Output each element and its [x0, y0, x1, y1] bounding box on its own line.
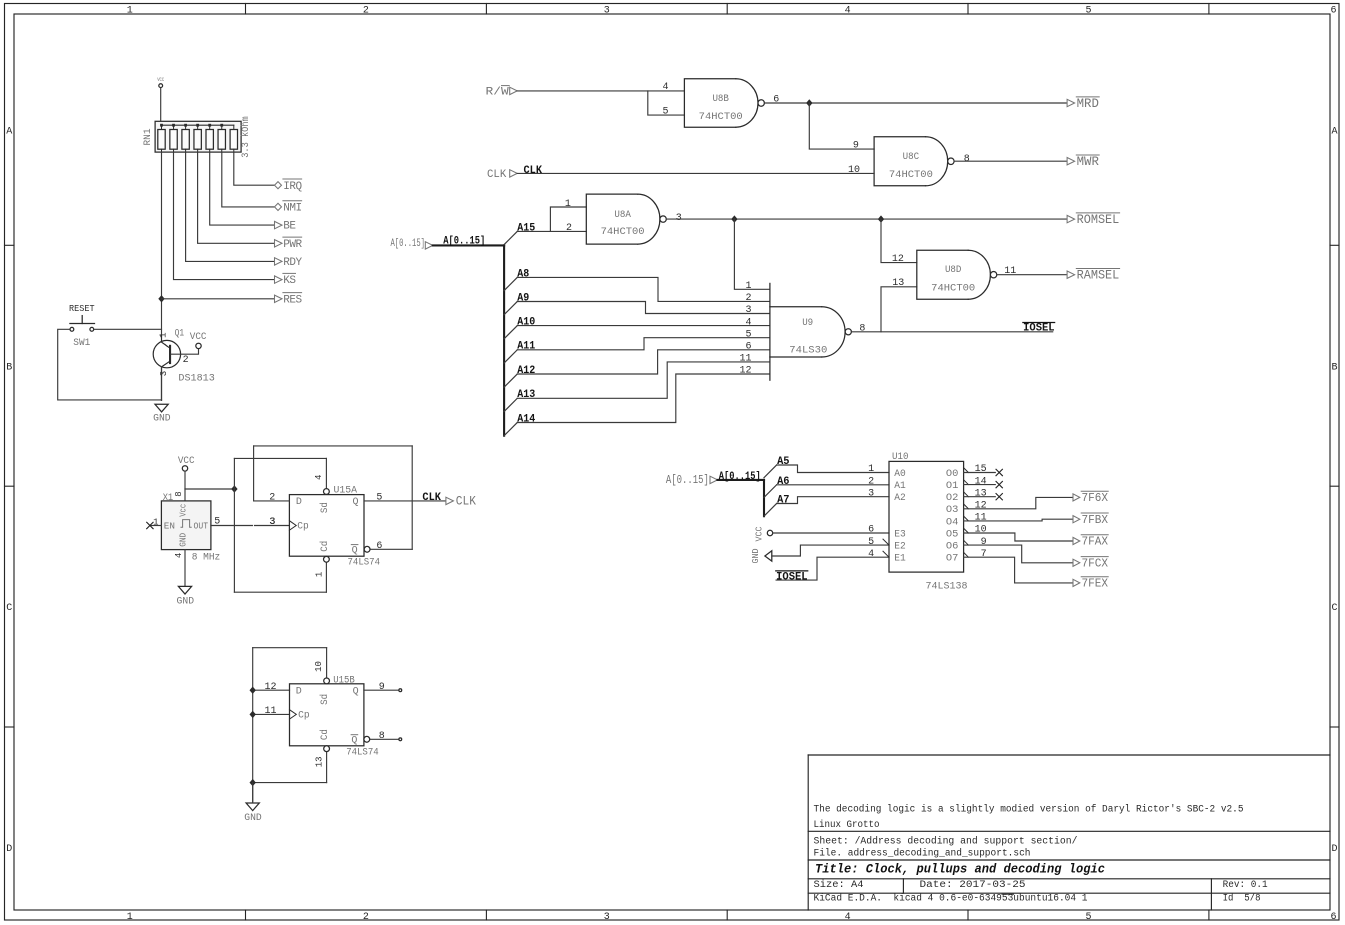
svg-text:E2: E2 [894, 542, 906, 553]
svg-text:A9: A9 [517, 292, 529, 304]
svg-text:15: 15 [975, 464, 987, 475]
svg-text:2: 2 [363, 912, 369, 923]
svg-text:14: 14 [975, 476, 987, 487]
svg-text:E3: E3 [894, 529, 906, 540]
svg-text:6: 6 [1330, 5, 1336, 16]
svg-text:3: 3 [676, 213, 682, 224]
svg-text:2: 2 [269, 493, 275, 504]
svg-text:5: 5 [1085, 912, 1091, 923]
svg-text:13: 13 [975, 488, 987, 499]
svg-text:6: 6 [868, 525, 874, 536]
svg-text:74HCT00: 74HCT00 [601, 227, 645, 238]
svg-text:8: 8 [964, 154, 970, 165]
svg-text:RAMSEL: RAMSEL [1077, 268, 1120, 282]
svg-text:13: 13 [315, 756, 325, 767]
svg-text:RES: RES [283, 294, 302, 306]
svg-text:A15: A15 [517, 222, 535, 234]
svg-text:IRQ: IRQ [283, 181, 302, 193]
svg-text:Q: Q [353, 686, 359, 697]
svg-text:GND: GND [179, 533, 189, 547]
svg-text:O5: O5 [946, 529, 959, 540]
svg-text:3: 3 [604, 912, 610, 923]
svg-text:Q: Q [352, 546, 358, 557]
svg-text:4: 4 [745, 317, 751, 328]
svg-text:A0: A0 [894, 469, 906, 480]
svg-text:A11: A11 [517, 341, 535, 353]
svg-text:74LS138: 74LS138 [926, 581, 968, 592]
svg-text:IOSEL: IOSEL [776, 571, 808, 583]
svg-text:BE: BE [283, 221, 296, 233]
svg-text:12: 12 [264, 682, 276, 693]
svg-text:7FBX: 7FBX [1082, 513, 1109, 527]
svg-text:U15A: U15A [334, 485, 358, 496]
svg-text:CLK: CLK [524, 165, 543, 177]
svg-text:The decoding logic is a slight: The decoding logic is a slightly modied … [814, 803, 1244, 815]
svg-text:KiCad E.D.A. kicad 4 0.6-e0-6: KiCad E.D.A. kicad 4 0.6-e0-634953ubuntu… [814, 893, 1088, 905]
svg-text:11: 11 [975, 513, 987, 524]
svg-text:RESET: RESET [69, 304, 95, 314]
svg-text:MWR: MWR [1077, 155, 1100, 169]
svg-text:U15B: U15B [333, 675, 355, 686]
svg-text:2: 2 [868, 476, 874, 487]
svg-text:Q1: Q1 [175, 328, 185, 339]
svg-text:7: 7 [981, 549, 987, 560]
svg-text:X1: X1 [163, 493, 174, 504]
svg-text:A[0..15]: A[0..15] [443, 236, 485, 248]
svg-text:8: 8 [379, 731, 385, 742]
svg-text:Rev: 0.1: Rev: 0.1 [1223, 880, 1268, 891]
svg-text:Q: Q [351, 736, 357, 747]
svg-text:1: 1 [868, 464, 874, 475]
svg-text:SW1: SW1 [73, 338, 90, 349]
svg-text:1: 1 [565, 199, 571, 210]
svg-text:Linux Grotto: Linux Grotto [814, 819, 880, 831]
svg-text:4: 4 [314, 475, 324, 480]
svg-text:1: 1 [159, 332, 169, 337]
svg-text:13: 13 [892, 278, 904, 289]
svg-text:74HCT00: 74HCT00 [931, 283, 975, 294]
svg-text:5: 5 [745, 329, 751, 340]
svg-text:O4: O4 [946, 517, 959, 528]
svg-text:IOSEL: IOSEL [1023, 323, 1055, 335]
svg-text:GND: GND [751, 549, 761, 564]
svg-text:D: D [6, 844, 12, 855]
svg-text:D: D [296, 686, 302, 697]
svg-text:3: 3 [868, 488, 874, 499]
svg-text:U8C: U8C [903, 152, 920, 163]
svg-text:9: 9 [981, 537, 987, 548]
svg-text:5: 5 [662, 106, 668, 117]
svg-text:A[0..15]: A[0..15] [719, 471, 761, 483]
svg-text:6: 6 [745, 342, 751, 353]
svg-text:10: 10 [975, 525, 987, 536]
svg-text:7F6X: 7F6X [1082, 491, 1109, 505]
svg-text:ROMSEL: ROMSEL [1077, 213, 1120, 227]
svg-text:Q: Q [353, 497, 359, 508]
svg-text:U9: U9 [802, 318, 813, 329]
svg-text:Cd: Cd [319, 729, 331, 740]
svg-text:74HCT00: 74HCT00 [889, 170, 933, 181]
svg-text:11: 11 [739, 354, 751, 365]
svg-text:Size: A4: Size: A4 [814, 879, 864, 891]
svg-text:1: 1 [127, 912, 133, 923]
svg-text:74LS74: 74LS74 [346, 748, 379, 759]
svg-text:GND: GND [244, 813, 262, 824]
svg-text:8: 8 [859, 324, 865, 335]
svg-text:R/W: R/W [486, 86, 510, 98]
svg-text:D: D [296, 497, 302, 508]
svg-text:A13: A13 [517, 389, 535, 401]
svg-text:GND: GND [153, 414, 171, 425]
svg-text:5: 5 [1085, 5, 1091, 16]
svg-text:3: 3 [269, 517, 275, 528]
svg-text:2: 2 [183, 355, 189, 366]
svg-text:Sd: Sd [319, 694, 331, 705]
svg-text:U10: U10 [892, 452, 909, 463]
svg-text:74LS74: 74LS74 [348, 558, 381, 569]
svg-text:4: 4 [845, 912, 851, 923]
svg-text:A6: A6 [777, 476, 789, 488]
svg-text:O2: O2 [946, 493, 959, 504]
svg-text:12: 12 [892, 254, 904, 265]
svg-text:74HCT00: 74HCT00 [699, 112, 743, 123]
svg-text:4: 4 [174, 553, 184, 558]
svg-text:A14: A14 [517, 413, 535, 425]
svg-text:4: 4 [662, 82, 668, 93]
svg-text:8 MHz: 8 MHz [192, 553, 221, 564]
svg-text:A5: A5 [777, 456, 790, 468]
svg-text:VCC: VCC [178, 456, 195, 467]
svg-text:A1: A1 [894, 481, 906, 492]
svg-text:B: B [1331, 362, 1337, 373]
svg-text:Cd: Cd [319, 541, 331, 552]
svg-text:A7: A7 [777, 495, 789, 507]
svg-text:9: 9 [853, 141, 859, 152]
svg-text:B: B [6, 362, 12, 373]
svg-text:10: 10 [314, 661, 324, 672]
svg-text:O3: O3 [946, 505, 959, 516]
svg-text:11: 11 [1004, 266, 1016, 277]
svg-text:File. address_decoding_and_sup: File. address_decoding_and_support.sch [814, 848, 1031, 860]
svg-text:A12: A12 [517, 365, 535, 377]
svg-text:4: 4 [868, 549, 874, 560]
svg-text:12: 12 [739, 366, 751, 377]
svg-text:DS1813: DS1813 [178, 374, 214, 385]
svg-text:C: C [1331, 603, 1337, 614]
svg-text:A10: A10 [517, 317, 535, 329]
svg-text:Sheet: /Address decoding and s: Sheet: /Address decoding and support sec… [814, 836, 1078, 848]
svg-text:74LS30: 74LS30 [789, 345, 827, 356]
svg-text:4: 4 [845, 5, 851, 16]
svg-text:A[0..15]: A[0..15] [391, 238, 426, 250]
svg-text:O0: O0 [946, 469, 959, 480]
svg-text:O7: O7 [946, 554, 959, 565]
svg-text:Cp: Cp [297, 522, 309, 533]
svg-text:3.3 kOhm: 3.3 kOhm [240, 116, 252, 158]
svg-text:O1: O1 [946, 481, 959, 492]
svg-text:MRD: MRD [1077, 97, 1099, 111]
svg-text:CLK: CLK [456, 495, 477, 509]
svg-text:Sd: Sd [319, 502, 331, 513]
svg-text:8: 8 [174, 491, 184, 496]
svg-text:A: A [1331, 126, 1337, 137]
svg-text:OUT: OUT [194, 521, 209, 531]
svg-text:KS: KS [283, 275, 296, 287]
svg-text:2: 2 [745, 293, 751, 304]
svg-text:1: 1 [745, 281, 751, 292]
svg-text:A: A [6, 126, 12, 137]
svg-text:3: 3 [745, 305, 751, 316]
svg-text:U8D: U8D [945, 265, 962, 276]
svg-text:PWR: PWR [283, 239, 302, 251]
svg-text:6: 6 [376, 541, 382, 552]
svg-text:11: 11 [264, 706, 276, 717]
svg-text:C: C [6, 603, 12, 614]
svg-text:5: 5 [868, 537, 874, 548]
svg-text:GND: GND [177, 596, 195, 607]
svg-text:3: 3 [604, 5, 610, 16]
svg-text:7FAX: 7FAX [1082, 535, 1109, 549]
svg-text:D: D [1331, 844, 1337, 855]
svg-text:A[0..15]: A[0..15] [666, 473, 709, 487]
svg-text:Vcc: Vcc [179, 504, 189, 517]
svg-text:Date: 2017-03-25: Date: 2017-03-25 [920, 880, 1026, 891]
svg-text:5: 5 [376, 493, 382, 504]
svg-text:2: 2 [566, 223, 572, 234]
svg-text:12: 12 [975, 501, 987, 512]
svg-text:E1: E1 [894, 554, 906, 565]
svg-text:U8B: U8B [712, 94, 729, 105]
svg-text:6: 6 [1330, 912, 1336, 923]
svg-text:7FEX: 7FEX [1082, 577, 1109, 591]
svg-text:NMI: NMI [283, 203, 301, 215]
svg-text:A2: A2 [894, 493, 906, 504]
svg-text:3: 3 [159, 371, 169, 376]
svg-text:1: 1 [314, 572, 324, 577]
svg-text:EN: EN [164, 521, 175, 531]
svg-text:CLK: CLK [422, 492, 441, 504]
svg-text:Title: Clock, pullups and deco: Title: Clock, pullups and decoding logic [815, 862, 1105, 876]
svg-text:9: 9 [379, 682, 385, 693]
svg-text:2: 2 [363, 5, 369, 16]
svg-text:1: 1 [127, 5, 133, 16]
svg-text:6: 6 [773, 94, 779, 105]
svg-text:CLK: CLK [487, 169, 507, 181]
svg-text:7FCX: 7FCX [1082, 556, 1109, 570]
svg-text:10: 10 [848, 165, 860, 176]
svg-text:A8: A8 [517, 268, 529, 280]
svg-text:RDY: RDY [283, 257, 302, 269]
svg-text:VCC: VCC [157, 77, 164, 83]
svg-text:U8A: U8A [614, 210, 631, 221]
svg-text:Id 5/8: Id 5/8 [1223, 893, 1261, 905]
svg-text:RN1: RN1 [143, 129, 154, 146]
svg-text:VCC: VCC [190, 332, 207, 343]
svg-text:1: 1 [153, 518, 158, 528]
svg-text:Cp: Cp [298, 711, 310, 722]
svg-text:VCC: VCC [755, 526, 765, 542]
svg-text:O6: O6 [946, 542, 959, 553]
